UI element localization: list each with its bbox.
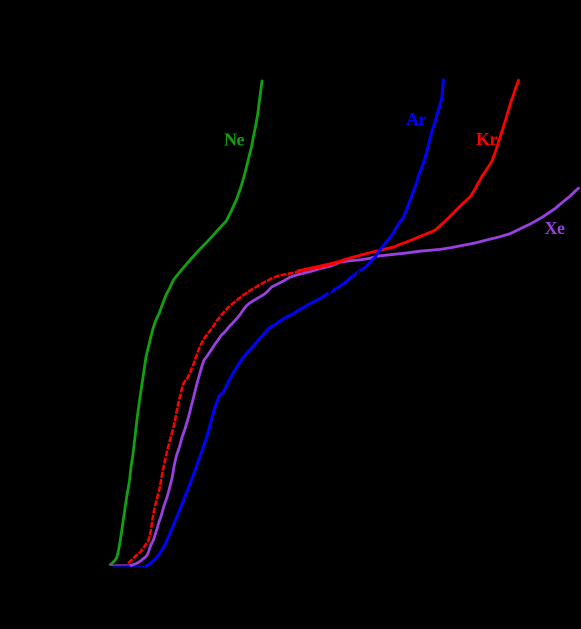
label Kr bbox=[476, 129, 498, 149]
label Ne bbox=[224, 130, 244, 150]
purple flat start (dim) bbox=[110, 564, 134, 566]
svg-text:Ne: Ne bbox=[224, 130, 244, 150]
svg-text:Xe: Xe bbox=[545, 218, 565, 238]
curve Ar (blue) bbox=[146, 80, 443, 566]
label Xe bbox=[545, 218, 565, 238]
curve Kr dashed lower part (red dash-dot) bbox=[128, 260, 345, 563]
curve Ne (green) bbox=[110, 81, 262, 565]
blue dash notch 1 bbox=[329, 289, 333, 294]
blue flat start (dim navy) bbox=[114, 565, 148, 568]
svg-text:Ar: Ar bbox=[406, 109, 426, 129]
blue dash notch 2 bbox=[357, 271, 360, 275]
label Ar bbox=[406, 109, 426, 129]
svg-text:Kr: Kr bbox=[476, 129, 498, 149]
curve Kr solid upper part (red) bbox=[298, 80, 519, 270]
curve Xe (purple) bbox=[131, 188, 579, 565]
